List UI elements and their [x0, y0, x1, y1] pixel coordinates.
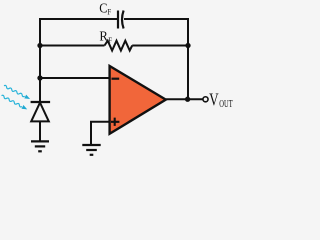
wire right vertical: [187, 18, 189, 99]
op-amp minus label: [112, 78, 120, 80]
svg-text:F: F: [107, 8, 111, 17]
ground at non-inverting input: [82, 145, 100, 155]
op-amp plus label: [111, 118, 119, 126]
wire RF left: [40, 45, 105, 47]
svg-text:V: V: [209, 89, 219, 109]
light arrow 2: [1, 94, 29, 111]
wire output: [166, 98, 203, 100]
op-amp U1: [110, 66, 166, 134]
junction node RF-left: [37, 43, 42, 48]
wire RF right: [132, 45, 188, 47]
wire non-inverting input: [91, 122, 111, 145]
light arrow 1: [3, 84, 31, 101]
junction node output: [185, 97, 190, 102]
wire top feedback (right of CF): [124, 18, 188, 20]
svg-text:OUT: OUT: [219, 98, 233, 110]
svg-text:C: C: [99, 2, 107, 17]
output terminal circle: [203, 97, 208, 102]
ground under photodiode: [31, 141, 49, 151]
wire inverting input: [40, 77, 110, 79]
svg-text:F: F: [108, 36, 112, 45]
junction node RF-right: [185, 43, 190, 48]
photodiode D1: [31, 102, 50, 141]
wire top feedback (left of CF): [40, 18, 117, 20]
capacitor CF: [118, 11, 124, 29]
resistor RF: [105, 41, 133, 51]
junction node input-left: [37, 75, 42, 80]
wire left vertical: [39, 18, 41, 102]
